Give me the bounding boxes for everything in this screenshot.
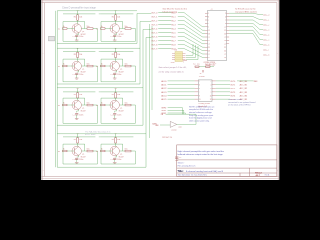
svg-text:KiCad: KiCad: [255, 173, 262, 175]
transistor Q4 amplifier stage: [96, 48, 135, 82]
svg-text:C1: C1: [111, 115, 113, 117]
svg-text:OUT4: OUT4: [230, 95, 235, 97]
svg-text:IN_3: IN_3: [172, 24, 176, 26]
op-amp U3 reference buffer: [152, 114, 196, 139]
note above bottom row: [85, 130, 110, 136]
svg-text:J2: J2: [200, 73, 202, 75]
svg-text:R1: R1: [74, 139, 76, 141]
wire supply bus verticals: [150, 24, 153, 138]
svg-text:R18 100: R18 100: [205, 64, 212, 66]
svg-text:10u: 10u: [87, 102, 90, 104]
wire left vertical bus: [55, 11, 57, 167]
svg-text:100n: 100n: [79, 74, 83, 76]
svg-text:C1: C1: [111, 36, 113, 38]
svg-text:IN_7: IN_7: [172, 40, 176, 42]
svg-text:VRF0: VRF0: [161, 107, 166, 109]
svg-text:100n: 100n: [79, 114, 83, 116]
note top right: [235, 8, 257, 14]
svg-text:Title:: Title:: [177, 169, 183, 173]
svg-text:OUT_2: OUT_2: [151, 20, 157, 22]
svg-text:IN_8: IN_8: [172, 44, 176, 46]
svg-text:I can see boxes: I can see boxes: [228, 99, 242, 101]
power flag left: [49, 36, 55, 41]
svg-text:Q1: Q1: [82, 69, 84, 71]
note lower right: [228, 99, 255, 107]
svg-text:OUT_3: OUT_3: [151, 24, 157, 26]
svg-text:OUT_8: OUT_8: [151, 44, 157, 46]
svg-text:R1: R1: [112, 16, 114, 18]
svg-text:10u: 10u: [125, 63, 128, 65]
note block multiline: [189, 105, 215, 122]
svg-text:100n: 100n: [79, 159, 83, 161]
op-amp U2 (yellow body): [171, 49, 187, 64]
svg-text:Q1: Q1: [82, 31, 84, 33]
svg-text:LM358: LM358: [171, 130, 176, 132]
svg-text:OUT_1: OUT_1: [151, 16, 157, 18]
wires connector to right labels: [229, 13, 269, 56]
svg-text:10u: 10u: [125, 26, 128, 28]
svg-text:C1: C1: [73, 115, 75, 117]
svg-text:R22 4k7 1%: R22 4k7 1%: [162, 137, 172, 139]
svg-text:OUT_4: OUT_4: [151, 28, 157, 30]
svg-text:OUT3: OUT3: [230, 92, 235, 94]
sheet frame border: [42, 0, 279, 180]
svg-text:BNC_0: BNC_0: [263, 15, 269, 17]
svg-text:100n: 100n: [79, 36, 83, 38]
svg-text:C1: C1: [73, 74, 75, 76]
svg-text:BNC_7: BNC_7: [263, 50, 269, 52]
labels to reference buffer: [161, 107, 185, 115]
svg-text:BNC_4: BNC_4: [263, 35, 269, 37]
svg-text:OUT_6: OUT_6: [151, 36, 157, 38]
page background: [0, 0, 320, 180]
svg-text:C9: C9: [179, 157, 181, 159]
svg-text:R1: R1: [74, 16, 76, 18]
svg-text:C1: C1: [73, 36, 75, 38]
transistor Q3 amplifier stage: [58, 48, 98, 82]
labels column E: [216, 80, 259, 101]
svg-text:IN_6: IN_6: [172, 36, 176, 38]
svg-text:BNC_3: BNC_3: [263, 30, 269, 32]
wire row 4 loop rectangle: [57, 38, 151, 168]
svg-text:Q1: Q1: [120, 31, 122, 33]
svg-text:BNC_5: BNC_5: [263, 40, 269, 42]
svg-text:R1: R1: [74, 54, 76, 56]
svg-text:R1: R1: [112, 139, 114, 141]
resistor R17 R18 and VCC: [193, 63, 217, 73]
svg-text:IN_5: IN_5: [172, 32, 176, 34]
svg-text:OUT_9: OUT_9: [151, 48, 157, 50]
wire row 3 loop rectangle: [57, 30, 151, 126]
svg-text:J1: J1: [211, 9, 213, 11]
svg-text:IN_1: IN_1: [172, 16, 176, 18]
transistor Q5 amplifier stage: [58, 89, 98, 124]
svg-text:R1: R1: [112, 94, 114, 96]
svg-text:10u: 10u: [125, 148, 128, 150]
svg-text:R17 100: R17 100: [193, 64, 200, 66]
note above mid labels: [163, 8, 188, 14]
title block: [177, 145, 277, 177]
svg-text:CONN_02X05: CONN_02X05: [198, 103, 210, 105]
svg-text:10k: 10k: [117, 16, 120, 18]
svg-text:Q1: Q1: [82, 108, 84, 110]
svg-text:100n: 100n: [117, 159, 121, 161]
svg-text:10k: 10k: [117, 54, 120, 56]
svg-text:IN_2: IN_2: [172, 20, 176, 22]
svg-text:10k: 10k: [117, 94, 120, 96]
svg-text:100n: 100n: [117, 36, 121, 38]
svg-text:10k: 10k: [79, 16, 82, 18]
svg-text:OUT_0: OUT_0: [151, 12, 157, 14]
svg-text:100n: 100n: [117, 114, 121, 116]
wire bundle down to analog section: [186, 44, 198, 60]
svg-text:OUT0: OUT0: [230, 81, 235, 83]
svg-text:OUT_7: OUT_7: [151, 40, 157, 42]
svg-text:C1: C1: [73, 159, 75, 161]
labels column D: [161, 80, 194, 101]
svg-text:10k: 10k: [117, 139, 120, 141]
transistor Q2 amplifier stage: [96, 11, 135, 42]
svg-text:U2: U2: [175, 49, 177, 51]
svg-text:Q1: Q1: [120, 69, 122, 71]
svg-text:Q1: Q1: [82, 154, 84, 156]
svg-text:10k: 10k: [79, 54, 82, 56]
svg-text:10k: 10k: [79, 139, 82, 141]
transistor Q1 amplifier stage: [58, 11, 98, 42]
svg-text:10u: 10u: [125, 102, 128, 104]
svg-text:BNC_2: BNC_2: [263, 25, 269, 27]
svg-text:OUT_5: OUT_5: [151, 32, 157, 34]
svg-text:10k: 10k: [79, 94, 82, 96]
svg-text:R1: R1: [112, 54, 114, 56]
svg-text:OUT2: OUT2: [230, 88, 235, 90]
transistor Q7 amplifier stage: [58, 134, 98, 164]
svg-text:BNC_6: BNC_6: [263, 45, 269, 47]
svg-text:VRF1: VRF1: [161, 110, 166, 112]
svg-text:C1: C1: [111, 159, 113, 161]
transistor Q6 amplifier stage: [96, 89, 135, 124]
svg-text:R1: R1: [74, 94, 76, 96]
transistor Q8 amplifier stage: [96, 134, 135, 164]
wire row 2 loop rectangle: [57, 22, 151, 85]
svg-text:100n: 100n: [117, 74, 121, 76]
hierarchical labels columns A/B with wires to connector J1: [151, 12, 205, 57]
svg-text:CON10: CON10: [199, 76, 205, 78]
svg-text:10u: 10u: [87, 26, 90, 28]
svg-text:BNC_8: BNC_8: [263, 55, 269, 57]
note mid analog: [159, 66, 187, 73]
svg-text:IN_4: IN_4: [172, 28, 176, 30]
svg-text:C1: C1: [111, 74, 113, 76]
svg-text:OUT1: OUT1: [230, 84, 235, 86]
svg-text:10u: 10u: [87, 148, 90, 150]
svg-text:Class D preamplifier input sta: Class D preamplifier input stage: [62, 7, 97, 10]
svg-text:full pin mapping: full pin mapping: [163, 11, 178, 13]
wire row 1 loop rectangle: [57, 11, 151, 44]
connector J1: [204, 9, 230, 67]
svg-text:Q1: Q1: [120, 108, 122, 110]
svg-text:10u: 10u: [87, 63, 90, 65]
connector J2: [195, 73, 216, 108]
svg-text:Q1: Q1: [120, 154, 122, 156]
svg-text:BNC_1: BNC_1: [263, 20, 269, 22]
capacitor C9 bottom: [175, 154, 181, 161]
